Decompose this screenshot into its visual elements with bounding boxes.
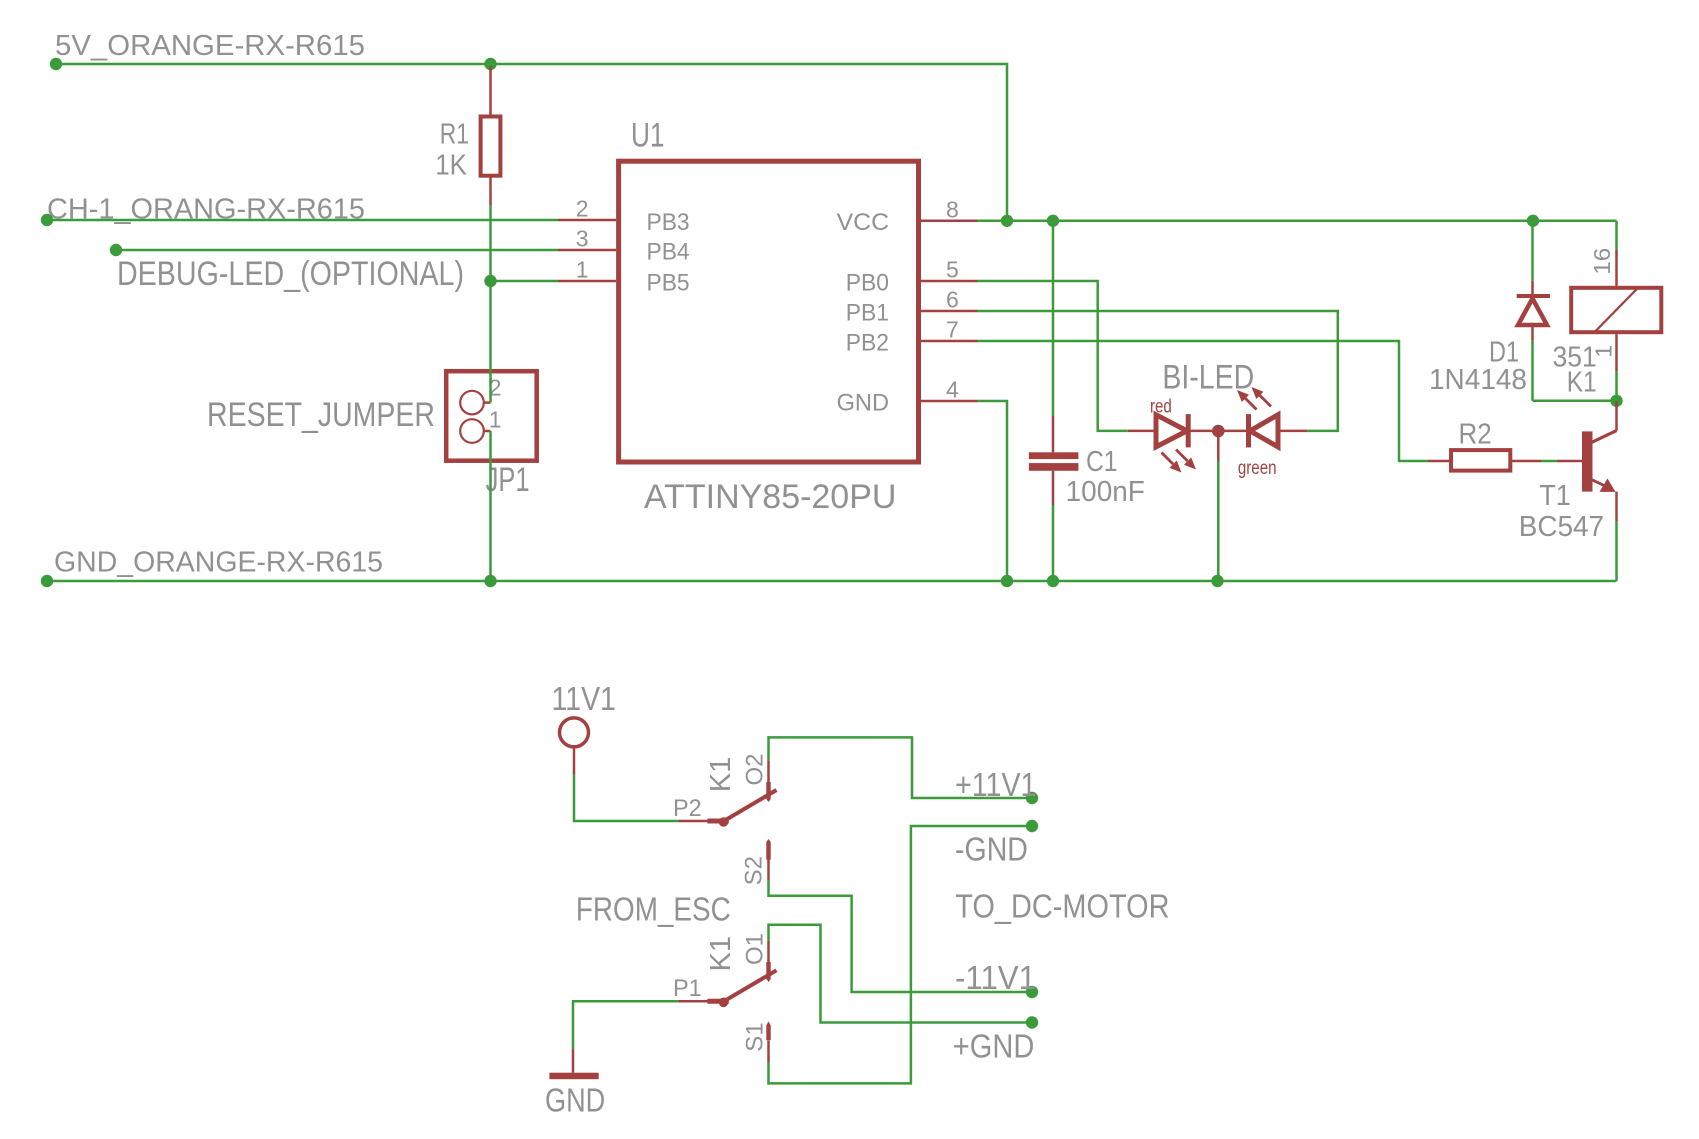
wire DEBUG to pin PB4 <box>116 249 558 252</box>
svg-text:JP1: JP1 <box>486 461 530 499</box>
pin 5 PB0 <box>921 280 978 283</box>
LED red anode lead <box>1128 430 1156 433</box>
svg-text:11V1: 11V1 <box>552 680 616 717</box>
svg-text:GND: GND <box>837 390 889 417</box>
wire D1 to relay pin1 node <box>1533 400 1617 403</box>
supply 11V1 pin <box>573 748 576 775</box>
pin 2 PB3 <box>558 219 616 222</box>
svg-text:+GND: +GND <box>953 1028 1035 1065</box>
jumper pin stub 2 <box>484 401 491 404</box>
wire C1 to GND rail <box>1052 505 1055 581</box>
capacitor C1 bottom pin <box>1052 471 1055 505</box>
svg-text:BC547: BC547 <box>1519 511 1604 543</box>
terminal S2 bar <box>766 839 770 860</box>
capacitor C1 top plate <box>1029 452 1079 459</box>
terminal O1 bar <box>766 962 770 982</box>
jumper pin stub 1 <box>484 430 491 433</box>
net -11V1 endpoint <box>1026 986 1038 998</box>
svg-text:PB1: PB1 <box>846 300 889 327</box>
junction VCC/D1 <box>1527 215 1539 227</box>
wire PB2 to R2 <box>978 341 1429 461</box>
relay K1 coil diagonal <box>1595 288 1638 331</box>
junction relay/D1/T1 <box>1610 395 1622 407</box>
wire O2 to +11V1 <box>769 737 1033 798</box>
pin 4 GND <box>921 400 978 403</box>
diode D1 cathode bar <box>1517 294 1550 298</box>
svg-text:O1: O1 <box>741 933 768 965</box>
wire red LED to center node <box>1188 430 1246 433</box>
junction VCC/5V <box>1001 215 1013 227</box>
svg-text:GND: GND <box>545 1081 605 1118</box>
wire PB0 to BI-LED <box>978 281 1128 431</box>
svg-text:6: 6 <box>946 286 959 312</box>
resistor R1 <box>481 117 501 176</box>
junction BI-LED center <box>1212 425 1225 438</box>
wire BI-LED cathode down <box>1217 437 1220 462</box>
wire VCC down to relay pin 16 <box>1615 221 1618 250</box>
wire CH-1 to pin PB3 <box>47 219 558 222</box>
wire S2 to -11V1 <box>769 880 1033 992</box>
LED red emission arrow 1 <box>1162 453 1182 473</box>
terminal S1 bar <box>766 1021 770 1040</box>
pin 7 PB2 <box>921 340 978 343</box>
svg-text:PB5: PB5 <box>647 270 690 297</box>
svg-text:VCC: VCC <box>837 209 889 236</box>
svg-text:1: 1 <box>489 406 502 432</box>
svg-text:5V_ORANGE-RX-R615: 5V_ORANGE-RX-R615 <box>55 30 365 62</box>
wire relay pin1 to junction <box>1615 371 1618 401</box>
svg-text:100nF: 100nF <box>1066 476 1145 508</box>
svg-text:DEBUG-LED_(OPTIONAL): DEBUG-LED_(OPTIONAL) <box>117 255 464 293</box>
capacitor C1 top pin <box>1052 416 1055 452</box>
relay contact P1 pivot <box>719 998 729 1008</box>
net +GND endpoint <box>1026 1016 1038 1028</box>
wire GND rail <box>47 580 1617 583</box>
svg-text:PB2: PB2 <box>846 330 889 357</box>
transistor T1 emitter wire <box>1615 492 1618 521</box>
relay K1 coil pin 1 <box>1615 334 1618 371</box>
diode D1 cathode pin <box>1531 281 1534 296</box>
LED red triangle <box>1156 415 1187 447</box>
terminal O1 stub <box>767 941 770 962</box>
wire VCC to C1 <box>1052 221 1055 416</box>
svg-text:K1: K1 <box>705 936 737 971</box>
jumper JP1 pad 1 circle <box>460 419 484 443</box>
wire D1 anode down <box>1531 341 1534 401</box>
svg-text:1K: 1K <box>435 150 467 182</box>
wire T1 emitter to GND rail <box>1615 521 1618 581</box>
LED green anode lead <box>1278 430 1307 433</box>
relay contact P2 lead <box>678 820 709 823</box>
terminal O2 bar <box>766 782 770 802</box>
ground bar <box>549 1073 598 1080</box>
svg-text:R2: R2 <box>1459 418 1492 450</box>
wire 5V rail <box>56 64 1007 221</box>
svg-text:16: 16 <box>1589 248 1615 275</box>
svg-text:BI-LED: BI-LED <box>1162 358 1254 396</box>
LED red cathode bar <box>1186 414 1191 447</box>
svg-text:P2: P2 <box>673 795 702 822</box>
svg-text:ATTINY85-20PU: ATTINY85-20PU <box>644 478 896 516</box>
svg-text:R1: R1 <box>440 119 469 151</box>
svg-text:S2: S2 <box>741 856 768 885</box>
svg-text:5: 5 <box>946 257 959 283</box>
supply 11V1 circle <box>560 718 589 747</box>
wire D1 top <box>1531 221 1534 281</box>
junction GND/pin4 <box>1001 575 1013 587</box>
resistor R2 <box>1451 450 1510 471</box>
transistor T1 base bar <box>1582 431 1593 491</box>
relay contact P1 thick bar <box>707 999 728 1004</box>
wire JP1 pin1 to GND rail <box>489 431 492 581</box>
wire P1 to GND symbol <box>573 1001 678 1049</box>
svg-text:K1: K1 <box>705 757 737 792</box>
relay contact K1 arm P2-O2 <box>723 790 777 822</box>
svg-text:red: red <box>1150 396 1172 417</box>
pin 6 PB1 <box>921 310 978 313</box>
wire R2 to T1 base <box>1541 460 1557 463</box>
wire junction to pin PB5 <box>491 280 559 283</box>
net CH-1 endpoint <box>41 214 53 226</box>
op IC U1 body <box>619 161 919 462</box>
LED green emission arrow 1 <box>1237 390 1257 410</box>
relay contact P2 pivot <box>719 817 729 827</box>
svg-text:FROM_ESC: FROM_ESC <box>576 891 731 928</box>
junction VCC/C1 <box>1047 215 1059 227</box>
svg-text:PB3: PB3 <box>647 209 690 236</box>
junction GND/BI-LED <box>1211 575 1223 587</box>
diode D1 triangle <box>1518 299 1547 326</box>
svg-text:P1: P1 <box>673 975 702 1002</box>
junction PB5 node <box>484 275 496 287</box>
junction GND/JP1 <box>484 575 496 587</box>
transistor T1 collector wire <box>1615 401 1618 431</box>
wire O1 to +GND <box>769 925 1033 1023</box>
wire PB5 node to JP1 pin2 <box>489 281 492 403</box>
jumper JP1 pad 2 circle <box>460 391 484 415</box>
wire PB1 to BI-LED <box>978 311 1338 431</box>
svg-text:RESET_JUMPER: RESET_JUMPER <box>207 396 435 434</box>
transistor T1 collector diagonal <box>1591 431 1617 443</box>
capacitor C1 bottom plate <box>1029 463 1079 471</box>
svg-text:+11V1: +11V1 <box>955 766 1037 803</box>
LED green cathode bar <box>1246 414 1251 447</box>
wire R1 top pin <box>489 66 492 116</box>
net DEBUG endpoint <box>110 244 122 256</box>
terminal S1 stub <box>767 1041 770 1063</box>
svg-text:PB4: PB4 <box>647 239 690 266</box>
svg-text:S1: S1 <box>741 1022 768 1051</box>
svg-text:1N4148: 1N4148 <box>1429 364 1527 396</box>
wire -GND to S1 <box>769 826 1033 1083</box>
terminal O2 stub <box>767 761 770 783</box>
relay K1 coil box <box>1571 288 1661 332</box>
junction 5V/R1 <box>484 58 496 70</box>
ground pin <box>572 1049 575 1073</box>
wire R1 to PB5/JP1 <box>489 206 492 281</box>
relay K1 coil pin 16 <box>1615 250 1618 286</box>
LED red emission arrow 2 <box>1176 450 1196 470</box>
LED green triangle <box>1250 415 1278 447</box>
relay contact P1 lead <box>678 1000 709 1003</box>
resistor R2 right pin <box>1510 460 1541 463</box>
transistor T1 emitter diagonal <box>1592 480 1604 486</box>
svg-text:-GND: -GND <box>955 830 1028 867</box>
svg-text:U1: U1 <box>631 117 665 155</box>
diode D1 anode pin <box>1531 325 1534 341</box>
wire 11V1 to P2 <box>574 775 678 822</box>
svg-text:O2: O2 <box>741 753 768 785</box>
svg-text:4: 4 <box>946 376 959 402</box>
svg-text:-11V1: -11V1 <box>955 959 1036 996</box>
svg-text:K1: K1 <box>1567 367 1597 399</box>
svg-text:T1: T1 <box>1539 480 1571 512</box>
svg-text:green: green <box>1238 458 1277 479</box>
pin 1 PB5 <box>558 280 616 283</box>
net 5V_ORANGE-RX-R615 endpoint <box>50 58 62 70</box>
resistor R2 left pin <box>1428 460 1451 463</box>
svg-text:8: 8 <box>946 196 959 222</box>
svg-text:3: 3 <box>576 225 589 251</box>
relay contact K1 arm P1-O1 <box>723 970 777 1002</box>
LED green emission arrow 2 <box>1252 387 1272 407</box>
wire pin4 GND to rail <box>978 401 1008 581</box>
relay contact P2 thick bar <box>707 819 728 824</box>
pin 8 VCC <box>921 220 978 223</box>
transistor T1 base pin <box>1557 460 1582 463</box>
svg-text:C1: C1 <box>1086 446 1118 478</box>
pin 3 PB4 <box>558 249 616 252</box>
svg-text:2: 2 <box>576 196 589 222</box>
jumper JP1 box <box>446 371 537 461</box>
net +11V1 endpoint <box>1026 792 1038 804</box>
wire R1 bottom pin <box>489 176 492 206</box>
svg-text:TO_DC-MOTOR: TO_DC-MOTOR <box>955 888 1169 925</box>
svg-text:1: 1 <box>576 256 589 282</box>
svg-text:PB0: PB0 <box>846 270 889 297</box>
transistor T1 emitter arrow <box>1600 479 1616 492</box>
junction GND/C1 <box>1047 575 1059 587</box>
wire VCC rail to relay <box>978 220 1617 223</box>
terminal S2 stub <box>767 860 770 881</box>
svg-text:7: 7 <box>946 316 959 342</box>
net GND endpoint <box>41 575 53 587</box>
svg-text:GND_ORANGE-RX-R615: GND_ORANGE-RX-R615 <box>54 547 383 579</box>
net -GND endpoint <box>1026 820 1038 832</box>
wire BI-LED to GND rail <box>1217 462 1220 582</box>
